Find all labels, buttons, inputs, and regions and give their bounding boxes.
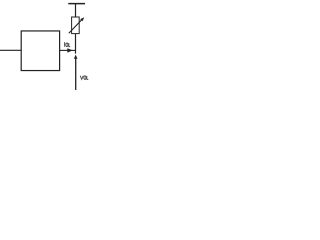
wire bbox=[0, 49, 21, 51]
current arrow IOL bbox=[67, 48, 73, 52]
power rail VCC bbox=[68, 3, 85, 5]
label VOL bbox=[80, 76, 88, 80]
wire bbox=[75, 34, 77, 54]
wire bbox=[75, 4, 77, 17]
resistor RL (variable) bbox=[69, 17, 84, 34]
device box bbox=[21, 31, 59, 71]
label IOL bbox=[65, 42, 71, 47]
voltage arrow VOL bbox=[74, 55, 78, 90]
wire bbox=[60, 49, 76, 51]
